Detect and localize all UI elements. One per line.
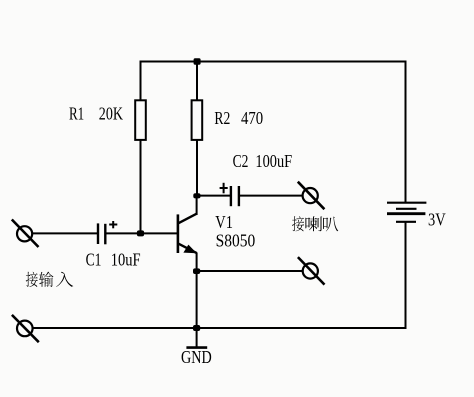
terminal input ground bbox=[12, 315, 39, 342]
label 3V bbox=[428, 210, 446, 230]
label C1 10uF bbox=[86, 250, 141, 270]
label GND bbox=[181, 347, 212, 367]
svg-text:20K: 20K bbox=[99, 104, 123, 124]
svg-text:100uF: 100uF bbox=[255, 151, 292, 171]
wire R1 top bbox=[140, 61, 142, 101]
label C2 100uF bbox=[233, 151, 293, 171]
node emitter junction bbox=[193, 268, 200, 274]
wire C2 to speaker terminal bbox=[239, 195, 302, 197]
wire R2 bottom bbox=[196, 140, 198, 197]
capacitor C1 bbox=[98, 221, 117, 244]
wire R1 bottom bbox=[140, 140, 142, 234]
wire right rail lower bbox=[405, 222, 407, 329]
svg-text:S8050: S8050 bbox=[216, 231, 256, 251]
label S8050 bbox=[216, 231, 256, 251]
wire emitter to speaker minus terminal bbox=[197, 270, 303, 272]
svg-text:GND: GND bbox=[181, 347, 212, 367]
resistor R2 bbox=[192, 100, 203, 140]
node VCC junction bbox=[194, 58, 201, 65]
svg-text:R1: R1 bbox=[69, 104, 84, 124]
wire right rail upper bbox=[405, 61, 407, 204]
wire collector node to C2 bbox=[197, 195, 231, 197]
svg-text:C2: C2 bbox=[233, 151, 249, 171]
svg-text:3V: 3V bbox=[428, 210, 446, 230]
svg-text:10uF: 10uF bbox=[111, 250, 141, 270]
resistor R1 bbox=[135, 100, 146, 140]
terminal speaker plus bbox=[298, 182, 325, 210]
ground GND bbox=[186, 328, 207, 348]
svg-text:V1: V1 bbox=[215, 212, 233, 232]
transistor V1 bbox=[178, 214, 197, 254]
label 接输入 bbox=[26, 272, 73, 287]
capacitor C2 bbox=[220, 183, 239, 206]
label 接喇叭 bbox=[292, 216, 338, 231]
wire R2 top bbox=[196, 61, 198, 101]
terminal input signal bbox=[12, 220, 39, 248]
node collector junction bbox=[193, 193, 200, 198]
wire C1 to base bbox=[106, 232, 178, 234]
wire emitter bbox=[196, 253, 198, 329]
label R2 470 bbox=[214, 108, 263, 128]
node ground junction bbox=[193, 325, 200, 331]
label V1 bbox=[215, 212, 233, 232]
svg-text:470: 470 bbox=[241, 108, 263, 128]
label R1 20K bbox=[69, 104, 123, 124]
terminal speaker minus bbox=[298, 257, 325, 285]
wire collector bbox=[196, 196, 198, 216]
node base junction bbox=[137, 230, 144, 236]
wire top rail bbox=[140, 61, 407, 63]
svg-text:C1: C1 bbox=[86, 250, 102, 270]
battery BT1 3V bbox=[387, 203, 426, 222]
svg-text:R2: R2 bbox=[214, 108, 230, 128]
wire input to C1 bbox=[33, 232, 98, 234]
wire bottom rail bbox=[33, 327, 407, 329]
